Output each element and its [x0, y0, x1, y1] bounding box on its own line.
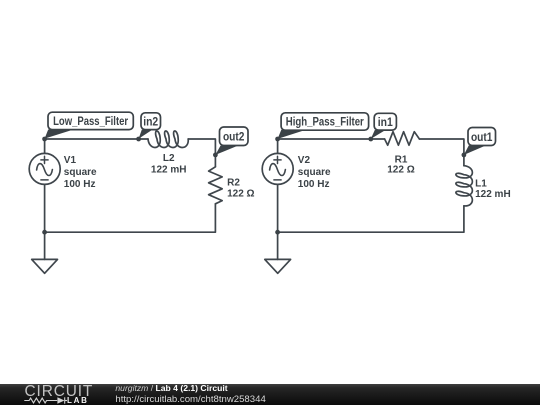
svg-text:V1: V1 — [64, 155, 77, 166]
wire: R2 to bottom rail — [45, 204, 216, 232]
junction node at V1 top — [42, 137, 47, 142]
svg-text:100 Hz: 100 Hz — [64, 179, 96, 190]
net flag out1 — [464, 128, 496, 155]
svg-text:out2: out2 — [223, 132, 245, 144]
svg-text:122 Ω: 122 Ω — [387, 165, 414, 176]
footer logo resistor-diode glyph — [24, 397, 67, 404]
resistor R1 — [385, 132, 420, 146]
wire: V1 bottom to bottom rail — [44, 184, 46, 232]
wire: V1 top stub — [44, 139, 46, 153]
label L1 value — [475, 178, 511, 200]
wire: bottom node to ground G1 — [44, 232, 46, 259]
resistor R2 — [209, 167, 223, 204]
label V2 value — [298, 155, 331, 190]
wire: R1 to top-right corner, down to L1 — [419, 139, 464, 166]
junction node at V2 top — [275, 137, 280, 142]
label V1 value — [64, 155, 97, 190]
junction node V1 bottom / ground — [42, 230, 47, 235]
ground G2 — [265, 259, 291, 273]
svg-text:High_Pass_Filter: High_Pass_Filter — [286, 117, 364, 129]
svg-text:nurgitzm / Lab 4 (2.1) Circuit: nurgitzm / Lab 4 (2.1) Circuit — [115, 383, 227, 393]
inductor L1 — [456, 166, 473, 206]
label L2 value — [151, 153, 187, 175]
net flag in2 — [139, 113, 161, 139]
voltage source V1 — [29, 153, 60, 184]
wire: top rail V2 node to R1 — [278, 138, 385, 140]
svg-text:square: square — [298, 167, 331, 178]
net flag High_Pass_Filter — [278, 113, 369, 139]
wire: top rail V1 node to L2 — [45, 138, 148, 140]
svg-text:122 Ω: 122 Ω — [227, 188, 254, 199]
ground G1 — [32, 259, 58, 273]
inductor L2 — [148, 131, 188, 148]
svg-text:R1: R1 — [395, 154, 408, 165]
wire: L1 to bottom rail — [278, 206, 464, 232]
voltage source V2 — [262, 153, 293, 184]
wire: L2 to top-right corner, down to R2 — [188, 139, 215, 167]
junction node in1 — [368, 137, 373, 142]
junction node V2 bottom / ground — [275, 230, 280, 235]
wire: V2 top stub — [277, 139, 279, 153]
net flag in1 — [371, 113, 397, 139]
svg-text:R2: R2 — [227, 177, 240, 188]
junction node out1 — [462, 153, 467, 158]
svg-text:L2: L2 — [163, 153, 175, 164]
junction node out2 — [213, 153, 218, 158]
svg-text:LAB: LAB — [67, 396, 89, 405]
svg-text:out1: out1 — [471, 132, 493, 144]
svg-text:V2: V2 — [298, 155, 311, 166]
label R2 value — [227, 177, 254, 199]
wire: V2 bottom to bottom rail — [277, 184, 279, 232]
svg-text:in1: in1 — [378, 117, 394, 129]
svg-text:in2: in2 — [143, 116, 158, 128]
svg-text:square: square — [64, 167, 97, 178]
wire: bottom node to ground G2 — [277, 232, 279, 259]
label R1 value — [387, 154, 414, 175]
net flag out2 — [215, 127, 248, 155]
junction node in2 — [136, 137, 141, 142]
svg-text:122 mH: 122 mH — [151, 164, 187, 175]
svg-text:122 mH: 122 mH — [475, 189, 511, 200]
svg-text:L1: L1 — [475, 178, 487, 189]
svg-text:100 Hz: 100 Hz — [298, 179, 330, 190]
footer bar — [0, 384, 540, 405]
net flag Low_Pass_Filter — [45, 112, 134, 138]
svg-text:http://circuitlab.com/cht8tnw2: http://circuitlab.com/cht8tnw258344 — [115, 394, 266, 405]
svg-text:Low_Pass_Filter: Low_Pass_Filter — [53, 116, 128, 128]
